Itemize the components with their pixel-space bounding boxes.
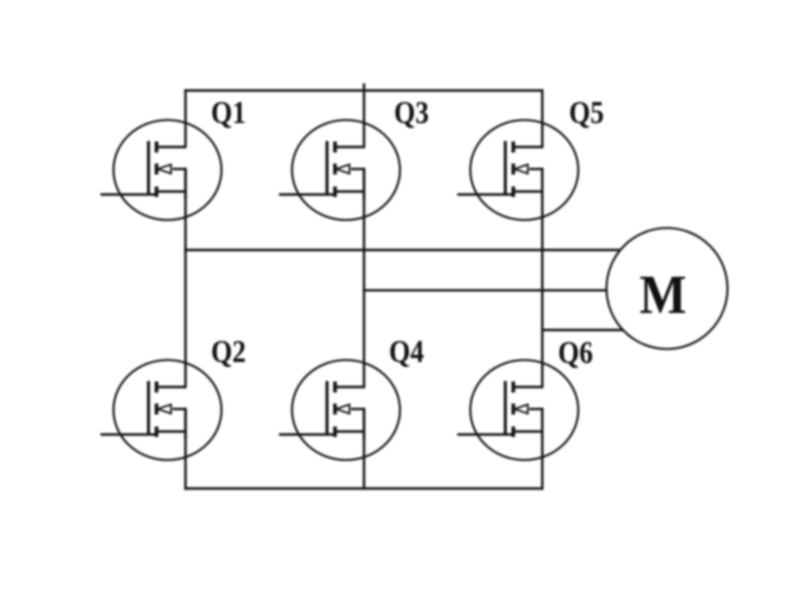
svg-text:Q1: Q1: [211, 95, 246, 130]
Q6 body arrow connection: [529, 408, 543, 410]
Q3 gate lead: [279, 193, 337, 195]
Q6 channel segment (body): [511, 404, 515, 415]
svg-text:Q6: Q6: [558, 335, 593, 370]
Q2 source stub: [157, 430, 186, 432]
Q5 body arrowhead: [514, 165, 528, 174]
Q3 channel segment (body): [333, 164, 337, 175]
transistor Q6 (N-channel MOSFET): [457, 360, 578, 460]
Q1 channel segment (source side): [155, 187, 159, 198]
transistor Q3 (N-channel MOSFET): [279, 120, 400, 220]
Q3 body circle: [292, 120, 400, 220]
Q2 body arrowhead: [158, 405, 172, 414]
wire: right phase leg middle segment (Q5 source to Q6 drain): [541, 169, 543, 387]
Q1 gate lead: [101, 193, 159, 195]
Q4 body arrowhead: [336, 405, 350, 414]
Q6 channel segment (drain side): [511, 382, 515, 393]
Q6 body arrowhead: [514, 405, 528, 414]
transistor Q1 (N-channel MOSFET): [101, 120, 222, 220]
Q5 source vertical: [541, 169, 543, 199]
Q1 gate bar: [147, 141, 150, 195]
transistor Q5 (N-channel MOSFET): [457, 120, 578, 220]
Q5 channel segment (drain side): [511, 142, 515, 153]
Q2 channel segment (body): [155, 404, 159, 415]
Q6 gate bar: [504, 381, 507, 435]
svg-text:Q5: Q5: [569, 95, 604, 130]
svg-text:M: M: [640, 264, 687, 325]
wire: middle phase leg lower segment (Q4 source to bottom rail): [363, 409, 365, 489]
wire: phase B output (middle leg to motor): [364, 289, 667, 291]
transistor Q2 (N-channel MOSFET): [101, 360, 222, 460]
Q3 body arrow connection: [351, 168, 365, 170]
Q3 body arrowhead: [336, 165, 350, 174]
Q2 gate bar: [147, 381, 150, 435]
Q5 gate bar: [504, 141, 507, 195]
wire: left phase leg upper segment (top rail to Q1 drain): [184, 91, 186, 148]
Q3 drain stub: [335, 146, 364, 148]
wire: phase C output (right leg to motor): [542, 329, 667, 331]
Q4 drain stub: [335, 386, 364, 388]
Q4 source stub: [335, 430, 364, 432]
Q5 body arrow connection: [529, 168, 543, 170]
Q1 body circle: [114, 120, 222, 220]
Q6 body circle: [470, 360, 578, 460]
wire: phase A output (left leg to motor): [186, 249, 668, 251]
motor M: [607, 228, 728, 349]
Q4 gate lead: [279, 433, 337, 435]
svg-text:Q3: Q3: [394, 95, 429, 130]
Q4 source vertical: [363, 409, 365, 439]
svg-text:Q2: Q2: [211, 334, 246, 369]
Q1 drain stub: [157, 146, 186, 148]
wire: left phase leg lower segment (Q2 source to bottom rail): [184, 409, 186, 489]
Q1 channel segment (drain side): [155, 142, 159, 153]
Q4 body circle: [292, 360, 400, 460]
wire: top DC bus rail: [186, 89, 543, 91]
Q5 body circle: [470, 120, 578, 220]
wire: left phase leg middle segment (Q1 source to Q2 drain): [184, 169, 186, 387]
Q2 body circle: [114, 360, 222, 460]
Q1 body arrowhead: [158, 165, 172, 174]
Q4 gate bar: [326, 381, 329, 435]
wire: middle phase leg upper segment (top rail to Q3 drain): [363, 91, 365, 148]
Q3 source vertical: [363, 169, 365, 199]
wire: bottom DC bus rail: [186, 487, 543, 489]
Q2 body arrow connection: [173, 408, 187, 410]
wire: middle-leg tick at top rail: [363, 85, 365, 91]
Q5 source stub: [513, 190, 542, 192]
Q3 source stub: [335, 190, 364, 192]
Q2 channel segment (drain side): [155, 382, 159, 393]
wire: right phase leg lower segment (Q6 source to bottom rail): [541, 409, 543, 489]
Q6 drain stub: [513, 386, 542, 388]
wire: middle phase leg middle segment (Q3 source to Q4 drain): [363, 169, 365, 387]
Q2 source vertical: [184, 409, 186, 439]
Q1 channel segment (body): [155, 164, 159, 175]
Q1 source stub: [157, 190, 186, 192]
Q3 gate bar: [326, 141, 329, 195]
Q4 channel segment (drain side): [333, 382, 337, 393]
Q1 source vertical: [184, 169, 186, 199]
Q6 gate lead: [457, 433, 515, 435]
Q2 channel segment (source side): [155, 427, 159, 438]
Q2 gate lead: [101, 433, 159, 435]
Q4 channel segment (source side): [333, 427, 337, 438]
svg-text:Q4: Q4: [389, 334, 424, 369]
wire: right phase leg upper segment (top rail to Q5 drain): [541, 91, 543, 148]
Q3 channel segment (drain side): [333, 142, 337, 153]
transistor Q4 (N-channel MOSFET): [279, 360, 400, 460]
Q4 channel segment (body): [333, 404, 337, 415]
Q1 body arrow connection: [173, 168, 187, 170]
Q6 source stub: [513, 430, 542, 432]
Q5 gate lead: [457, 193, 515, 195]
Q4 body arrow connection: [351, 408, 365, 410]
Q3 channel segment (source side): [333, 187, 337, 198]
Q5 channel segment (body): [511, 164, 515, 175]
Q6 channel segment (source side): [511, 427, 515, 438]
Q6 source vertical: [541, 409, 543, 439]
Q5 channel segment (source side): [511, 187, 515, 198]
Q2 drain stub: [157, 386, 186, 388]
Q5 drain stub: [513, 146, 542, 148]
